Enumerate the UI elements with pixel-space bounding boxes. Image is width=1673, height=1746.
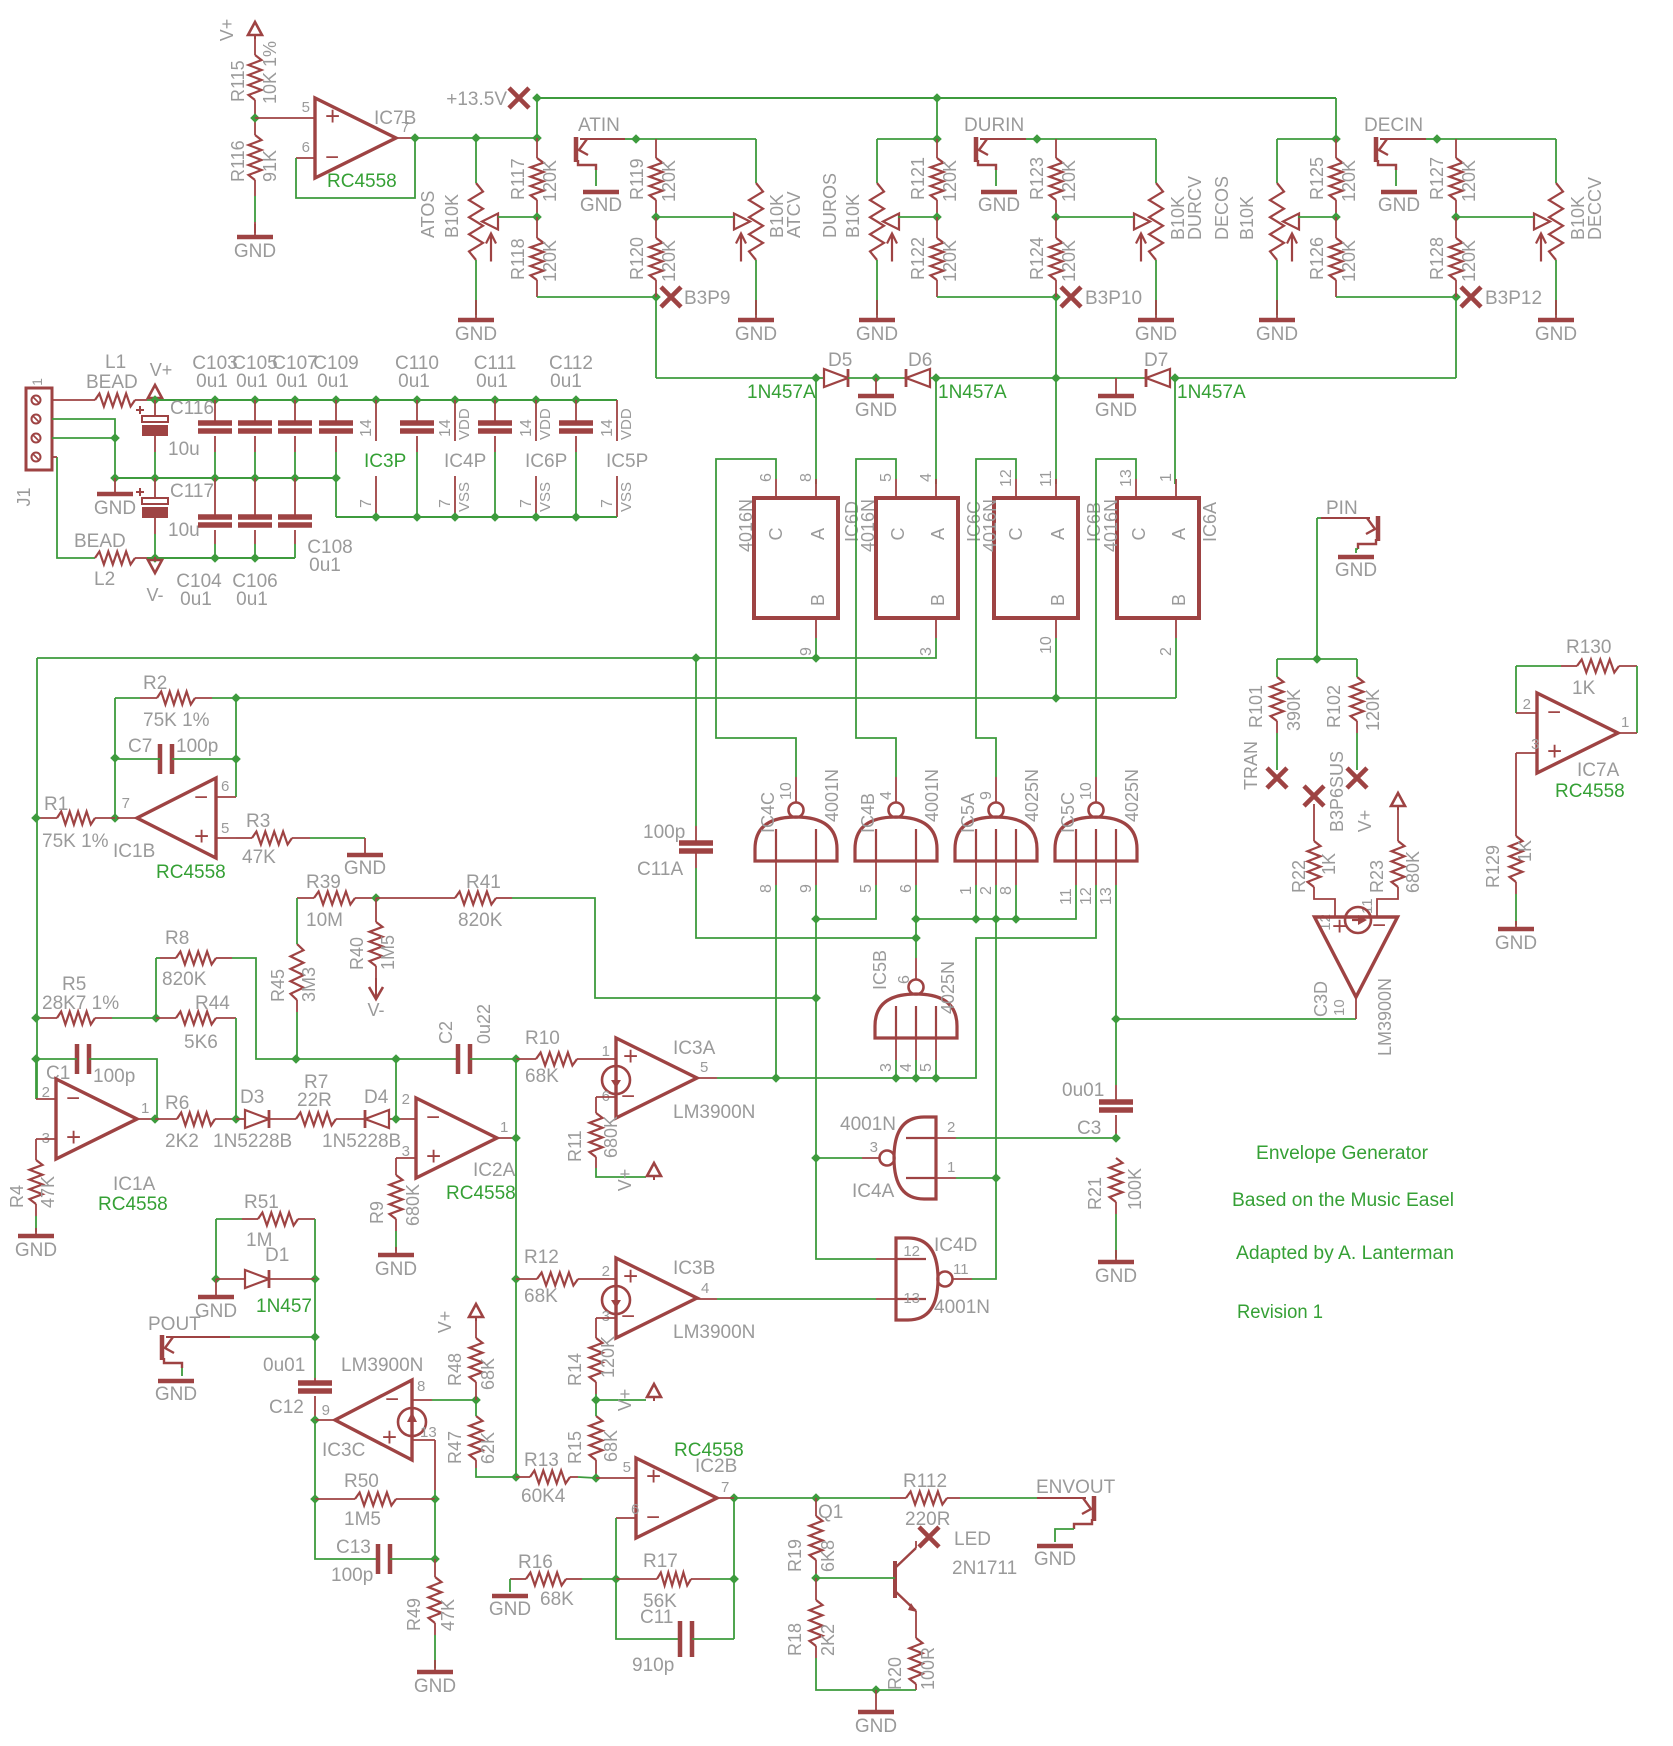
- no-connect flag LED: [919, 1527, 939, 1547]
- svg-text:DURIN: DURIN: [964, 115, 1024, 136]
- resistor R12: [537, 1273, 578, 1286]
- junction: [932, 134, 942, 144]
- svg-text:VDD: VDD: [537, 408, 554, 440]
- wire: [995, 919, 997, 1178]
- wire: [935, 479, 937, 498]
- junction: [291, 1054, 301, 1064]
- svg-text:1: 1: [947, 1159, 955, 1176]
- svg-text:R1: R1: [44, 794, 68, 815]
- jack POUT: [162, 1335, 182, 1368]
- svg-text:R23: R23: [1367, 860, 1387, 893]
- svg-text:VSS: VSS: [537, 482, 554, 512]
- svg-text:V+: V+: [435, 1311, 455, 1334]
- power V+ VP_J1: [148, 360, 172, 402]
- svg-text:75K 1%: 75K 1%: [42, 831, 109, 852]
- wire: [1055, 479, 1057, 498]
- wire: [655, 217, 657, 238]
- wire: [296, 1000, 298, 1012]
- wire: [35, 1059, 37, 1099]
- wire: [112, 1017, 156, 1019]
- wire: [1636, 666, 1638, 733]
- junction: [571, 395, 581, 405]
- wire: [935, 378, 937, 484]
- junction: [250, 395, 260, 405]
- junction: [1451, 212, 1461, 222]
- svg-text:DECIN: DECIN: [1364, 115, 1423, 136]
- resistor R128: [1450, 238, 1463, 280]
- ground GND_DURCV: [1135, 300, 1177, 345]
- wire: [296, 898, 298, 944]
- wire: [314, 1279, 316, 1337]
- junction: [811, 993, 821, 1003]
- gate IC5B: [875, 980, 957, 1039]
- junction: [811, 914, 821, 924]
- svg-text:2: 2: [602, 1263, 610, 1280]
- potentiometer DUROS: [870, 183, 899, 262]
- svg-text:4001N: 4001N: [934, 1297, 990, 1318]
- wire: [475, 1400, 477, 1416]
- wire: [154, 478, 156, 498]
- wire: [536, 98, 538, 138]
- wire: [395, 1219, 397, 1231]
- svg-text:2N1711: 2N1711: [952, 1558, 1017, 1579]
- svg-text:−: −: [621, 1303, 635, 1330]
- wire: [254, 400, 256, 423]
- wire: [1115, 1085, 1117, 1102]
- wire: [691, 1578, 710, 1580]
- wire: [36, 1017, 57, 1019]
- wire: [1555, 139, 1557, 183]
- wire: [155, 958, 157, 1018]
- op-amp IC3C: [335, 1380, 426, 1460]
- svg-text:GND: GND: [1378, 195, 1420, 216]
- svg-text:GND: GND: [195, 1301, 237, 1322]
- wire: [995, 170, 997, 186]
- wire: [936, 1137, 956, 1139]
- resistor R18: [810, 1600, 823, 1646]
- svg-text:B3P9: B3P9: [684, 288, 730, 309]
- junction: [371, 512, 381, 522]
- svg-text:IC4C: IC4C: [758, 792, 778, 833]
- junction: [911, 1073, 921, 1083]
- wire: [254, 196, 256, 222]
- svg-text:12: 12: [1078, 887, 1095, 905]
- wire: [315, 1419, 336, 1421]
- wire: [936, 98, 938, 139]
- wire: [1437, 138, 1556, 140]
- svg-text:IC3P: IC3P: [364, 451, 406, 472]
- wire: [1276, 733, 1278, 770]
- power V- VM_J1: [146, 557, 163, 605]
- svg-text:−: −: [426, 1104, 440, 1131]
- capacitor C108: [278, 517, 312, 525]
- wire: [516, 1476, 530, 1478]
- wire: [697, 1298, 717, 1300]
- wire: [1175, 618, 1177, 638]
- gate IC4D: [896, 1238, 953, 1320]
- wire: [255, 117, 315, 119]
- wire: [137, 1118, 155, 1120]
- svg-text:R10: R10: [525, 1028, 560, 1049]
- wire: [915, 958, 917, 980]
- svg-text:C3D: C3D: [1311, 981, 1331, 1017]
- svg-text:5: 5: [858, 884, 875, 893]
- no-connect flag B3P9: [661, 287, 681, 307]
- wire: [582, 1578, 616, 1580]
- wire: [1555, 260, 1557, 315]
- wire: [1174, 378, 1176, 484]
- capacitor C112: [559, 423, 593, 431]
- resistor R126: [1330, 238, 1343, 280]
- no-connect flag 13V5: [509, 88, 529, 108]
- diode D4: [365, 1110, 389, 1128]
- wire: [236, 1118, 245, 1120]
- wire: [434, 1490, 436, 1499]
- svg-text:62K: 62K: [478, 1432, 498, 1464]
- wire: [1015, 479, 1017, 498]
- svg-text:D4: D4: [364, 1087, 389, 1108]
- ground GND_R9: [375, 1247, 417, 1280]
- wire: [916, 885, 1076, 919]
- junction: [31, 813, 41, 823]
- junction: [150, 473, 160, 483]
- svg-text:IC4D: IC4D: [934, 1235, 977, 1256]
- svg-text:2: 2: [402, 1091, 410, 1108]
- wire: [475, 1321, 477, 1338]
- junction: [310, 1494, 320, 1504]
- resistor R16: [526, 1573, 566, 1586]
- wire: [1055, 297, 1057, 378]
- svg-text:+13.5V: +13.5V: [446, 89, 507, 110]
- svg-text:2K2: 2K2: [165, 1131, 199, 1152]
- svg-text:R118: R118: [508, 238, 528, 280]
- wire: [1336, 296, 1456, 298]
- svg-text:ATCV: ATCV: [784, 191, 804, 238]
- svg-text:1N457: 1N457: [256, 1296, 312, 1317]
- wire: [117, 817, 137, 819]
- resistor R19: [810, 1516, 823, 1560]
- wire: [1335, 98, 1337, 139]
- wire: [575, 452, 577, 517]
- resistor R127: [1450, 158, 1463, 200]
- svg-text:DURCV: DURCV: [1185, 176, 1205, 240]
- junction: [290, 395, 300, 405]
- wire: [815, 1498, 817, 1516]
- junction: [931, 373, 941, 383]
- wire: [389, 1118, 416, 1120]
- wire: [269, 1278, 315, 1280]
- wire: [815, 378, 817, 484]
- svg-text:GND: GND: [489, 1599, 531, 1620]
- junction: [210, 473, 220, 483]
- wire: [36, 1058, 77, 1060]
- svg-text:1N457A: 1N457A: [938, 382, 1007, 403]
- resistor R11: [590, 1113, 603, 1157]
- capacitor C116: [136, 406, 168, 436]
- wire: [494, 436, 496, 452]
- svg-text:IC7A: IC7A: [1577, 760, 1620, 781]
- junction: [211, 1274, 221, 1284]
- svg-text:IC7B: IC7B: [374, 108, 416, 129]
- wire: [717, 1298, 876, 1300]
- svg-text:−: −: [385, 1386, 399, 1413]
- svg-text:4016N: 4016N: [980, 499, 1000, 552]
- resistor R119: [650, 158, 663, 200]
- wire: [1055, 217, 1057, 238]
- wire: [995, 777, 997, 803]
- resistor R44: [176, 1012, 216, 1025]
- svg-text:0u1: 0u1: [476, 371, 508, 392]
- ground GND_ATIN: [580, 192, 622, 216]
- svg-text:390K: 390K: [1284, 689, 1304, 731]
- svg-text:R101: R101: [1246, 685, 1266, 728]
- junction: [811, 1493, 821, 1503]
- wire: [336, 1118, 365, 1120]
- no-connect flag B3P12: [1461, 287, 1481, 307]
- power V+ VP_R23: [1355, 793, 1405, 832]
- wire: [1155, 139, 1157, 183]
- svg-text:A: A: [928, 528, 948, 540]
- svg-text:R5: R5: [62, 974, 86, 995]
- wire: [1455, 217, 1457, 238]
- wire: [856, 459, 896, 777]
- svg-text:GND: GND: [1335, 560, 1377, 581]
- wire: [655, 139, 657, 158]
- wire: [815, 479, 817, 498]
- svg-text:B: B: [808, 594, 828, 606]
- wire: [315, 1499, 378, 1559]
- svg-text:GND: GND: [855, 400, 897, 421]
- svg-text:2: 2: [978, 886, 995, 895]
- svg-text:D7: D7: [1144, 350, 1168, 371]
- wire: [936, 200, 938, 217]
- wire: [775, 479, 777, 498]
- svg-text:120K: 120K: [540, 160, 560, 202]
- junction: [1051, 693, 1061, 703]
- junction: [110, 813, 120, 823]
- wire: [717, 885, 1096, 1078]
- wire V+ rail: [155, 399, 617, 401]
- svg-text:68K: 68K: [524, 1286, 558, 1307]
- svg-text:10: 10: [1331, 999, 1348, 1016]
- wire: [294, 478, 296, 517]
- wire: [692, 1638, 734, 1640]
- svg-text:1M5: 1M5: [344, 1509, 381, 1530]
- wire: [1116, 1018, 1356, 1020]
- svg-text:R6: R6: [165, 1093, 189, 1114]
- wire: [578, 1278, 616, 1280]
- wire: [956, 1137, 1116, 1139]
- op-amp IC3B: [602, 1258, 697, 1338]
- svg-text:4: 4: [918, 473, 935, 482]
- svg-text:+: +: [194, 821, 209, 851]
- wire: [816, 1658, 916, 1690]
- op-amp IC2A: [416, 1098, 497, 1178]
- svg-text:5: 5: [302, 99, 310, 116]
- junction: [1111, 1014, 1121, 1024]
- junction: [691, 653, 701, 663]
- svg-text:R9: R9: [367, 1201, 387, 1224]
- wire: [214, 436, 216, 452]
- IC power pins IC6P: [535, 400, 537, 517]
- svg-text:+: +: [1332, 911, 1347, 941]
- svg-text:R50: R50: [344, 1471, 379, 1492]
- wire: [509, 1579, 511, 1592]
- wire: [596, 1394, 646, 1400]
- IC power pins IC3P: [375, 400, 377, 517]
- resistor R17: [657, 1573, 691, 1586]
- svg-text:POUT: POUT: [148, 1314, 201, 1335]
- svg-text:RC4558: RC4558: [156, 862, 226, 883]
- capacitor C110: [400, 423, 434, 431]
- wire: [395, 1231, 397, 1251]
- wire: [975, 885, 977, 919]
- wire: [875, 861, 877, 885]
- wire: [254, 478, 256, 517]
- diode D7: [1146, 369, 1170, 387]
- junction: [811, 1573, 821, 1583]
- wire: [1095, 777, 1097, 803]
- svg-text:47K: 47K: [242, 847, 276, 868]
- svg-text:R11: R11: [565, 1130, 585, 1162]
- wire: [294, 544, 296, 558]
- svg-text:−: −: [646, 1504, 660, 1531]
- ground GND_POUT: [155, 1381, 197, 1405]
- wire: [696, 868, 916, 938]
- svg-text:D5: D5: [828, 350, 852, 371]
- svg-text:0u1: 0u1: [550, 371, 582, 392]
- wire: [412, 1439, 435, 1441]
- resistor R20: [910, 1638, 923, 1684]
- resistor R122: [931, 238, 944, 280]
- potentiometer ATCV: [734, 183, 763, 262]
- wire: [1317, 517, 1321, 519]
- junction: [531, 395, 541, 405]
- wire: [1055, 638, 1057, 698]
- wire: [915, 1038, 917, 1060]
- svg-text:910p: 910p: [632, 1655, 674, 1676]
- wire: [1397, 806, 1399, 841]
- wire: [915, 885, 917, 958]
- wire: [1096, 459, 1136, 777]
- ground GND_DECIN: [1378, 192, 1420, 216]
- svg-text:LM3900N: LM3900N: [341, 1355, 423, 1376]
- svg-text:R49: R49: [404, 1598, 424, 1631]
- junction: [932, 212, 942, 222]
- wire: [1335, 200, 1337, 217]
- wire: [52, 456, 57, 458]
- junction: [531, 512, 541, 522]
- svg-text:IC6P: IC6P: [525, 451, 567, 472]
- wire: [154, 534, 156, 558]
- svg-text:13: 13: [1098, 887, 1115, 905]
- wire: [214, 544, 216, 558]
- svg-text:IC3C: IC3C: [322, 1440, 365, 1461]
- svg-text:ATOS: ATOS: [418, 191, 438, 238]
- wire: [625, 138, 636, 140]
- wire: [294, 436, 296, 452]
- wire: [1455, 297, 1457, 378]
- op-amp IC3A: [602, 1038, 697, 1118]
- svg-text:91K: 91K: [260, 150, 280, 182]
- wire: [254, 222, 256, 233]
- svg-text:820K: 820K: [458, 910, 503, 931]
- svg-text:5: 5: [623, 1459, 631, 1476]
- resistor R117: [531, 158, 544, 200]
- svg-text:13: 13: [1118, 469, 1135, 487]
- wire: [980, 138, 1026, 140]
- wire: [816, 1577, 895, 1579]
- junction: [290, 473, 300, 483]
- resistor R115: [249, 55, 262, 100]
- wire: [434, 1635, 436, 1668]
- svg-text:2: 2: [947, 1119, 955, 1136]
- resistor R112: [906, 1492, 947, 1505]
- svg-text:9: 9: [322, 1402, 330, 1419]
- wire: [1515, 894, 1517, 925]
- svg-text:120K: 120K: [1459, 160, 1479, 202]
- wire: [416, 452, 418, 517]
- svg-text:2K2: 2K2: [818, 1624, 838, 1656]
- wire: [298, 1218, 315, 1220]
- wire: [1095, 861, 1097, 885]
- wire: [515, 1059, 517, 1477]
- svg-text:0u1: 0u1: [180, 589, 212, 610]
- resistor R10: [536, 1053, 577, 1066]
- svg-text:0u1: 0u1: [196, 371, 228, 392]
- svg-text:100R: 100R: [918, 1647, 938, 1690]
- ground GND_PWR: [94, 478, 136, 519]
- svg-text:GND: GND: [15, 1240, 57, 1261]
- svg-text:47K: 47K: [38, 1176, 58, 1208]
- svg-text:R130: R130: [1566, 637, 1611, 658]
- resistor R48: [470, 1338, 483, 1382]
- wire: [876, 139, 878, 183]
- junction: [371, 893, 381, 903]
- wire: [432, 1399, 476, 1401]
- svg-text:4025N: 4025N: [1022, 769, 1042, 822]
- wire: [390, 1558, 435, 1560]
- wire: [697, 1077, 717, 1079]
- wire: [296, 1058, 458, 1060]
- svg-text:R40: R40: [347, 937, 367, 970]
- wire: [498, 216, 537, 218]
- junction: [150, 553, 160, 563]
- svg-text:C11A: C11A: [637, 859, 683, 880]
- wire: [1516, 752, 1537, 754]
- svg-text:120K: 120K: [1339, 160, 1359, 202]
- resistor R102: [1351, 677, 1364, 721]
- svg-text:R122: R122: [908, 237, 928, 280]
- svg-text:4025N: 4025N: [1122, 769, 1142, 822]
- wire: [1115, 861, 1117, 885]
- wire: [1276, 260, 1278, 315]
- ground GND_DECCV: [1535, 300, 1577, 345]
- wire: [1056, 216, 1134, 218]
- wire: [655, 297, 657, 378]
- svg-text:7: 7: [721, 1479, 729, 1496]
- junction: [1111, 1133, 1121, 1143]
- junction: [991, 1173, 1001, 1183]
- wire: [1115, 885, 1117, 1019]
- junction: [490, 395, 500, 405]
- wire: [1516, 712, 1537, 714]
- junction: [31, 1054, 41, 1064]
- wire: [375, 966, 377, 978]
- svg-text:BEAD: BEAD: [86, 372, 138, 393]
- wire: [230, 1336, 315, 1338]
- wire: [375, 898, 377, 922]
